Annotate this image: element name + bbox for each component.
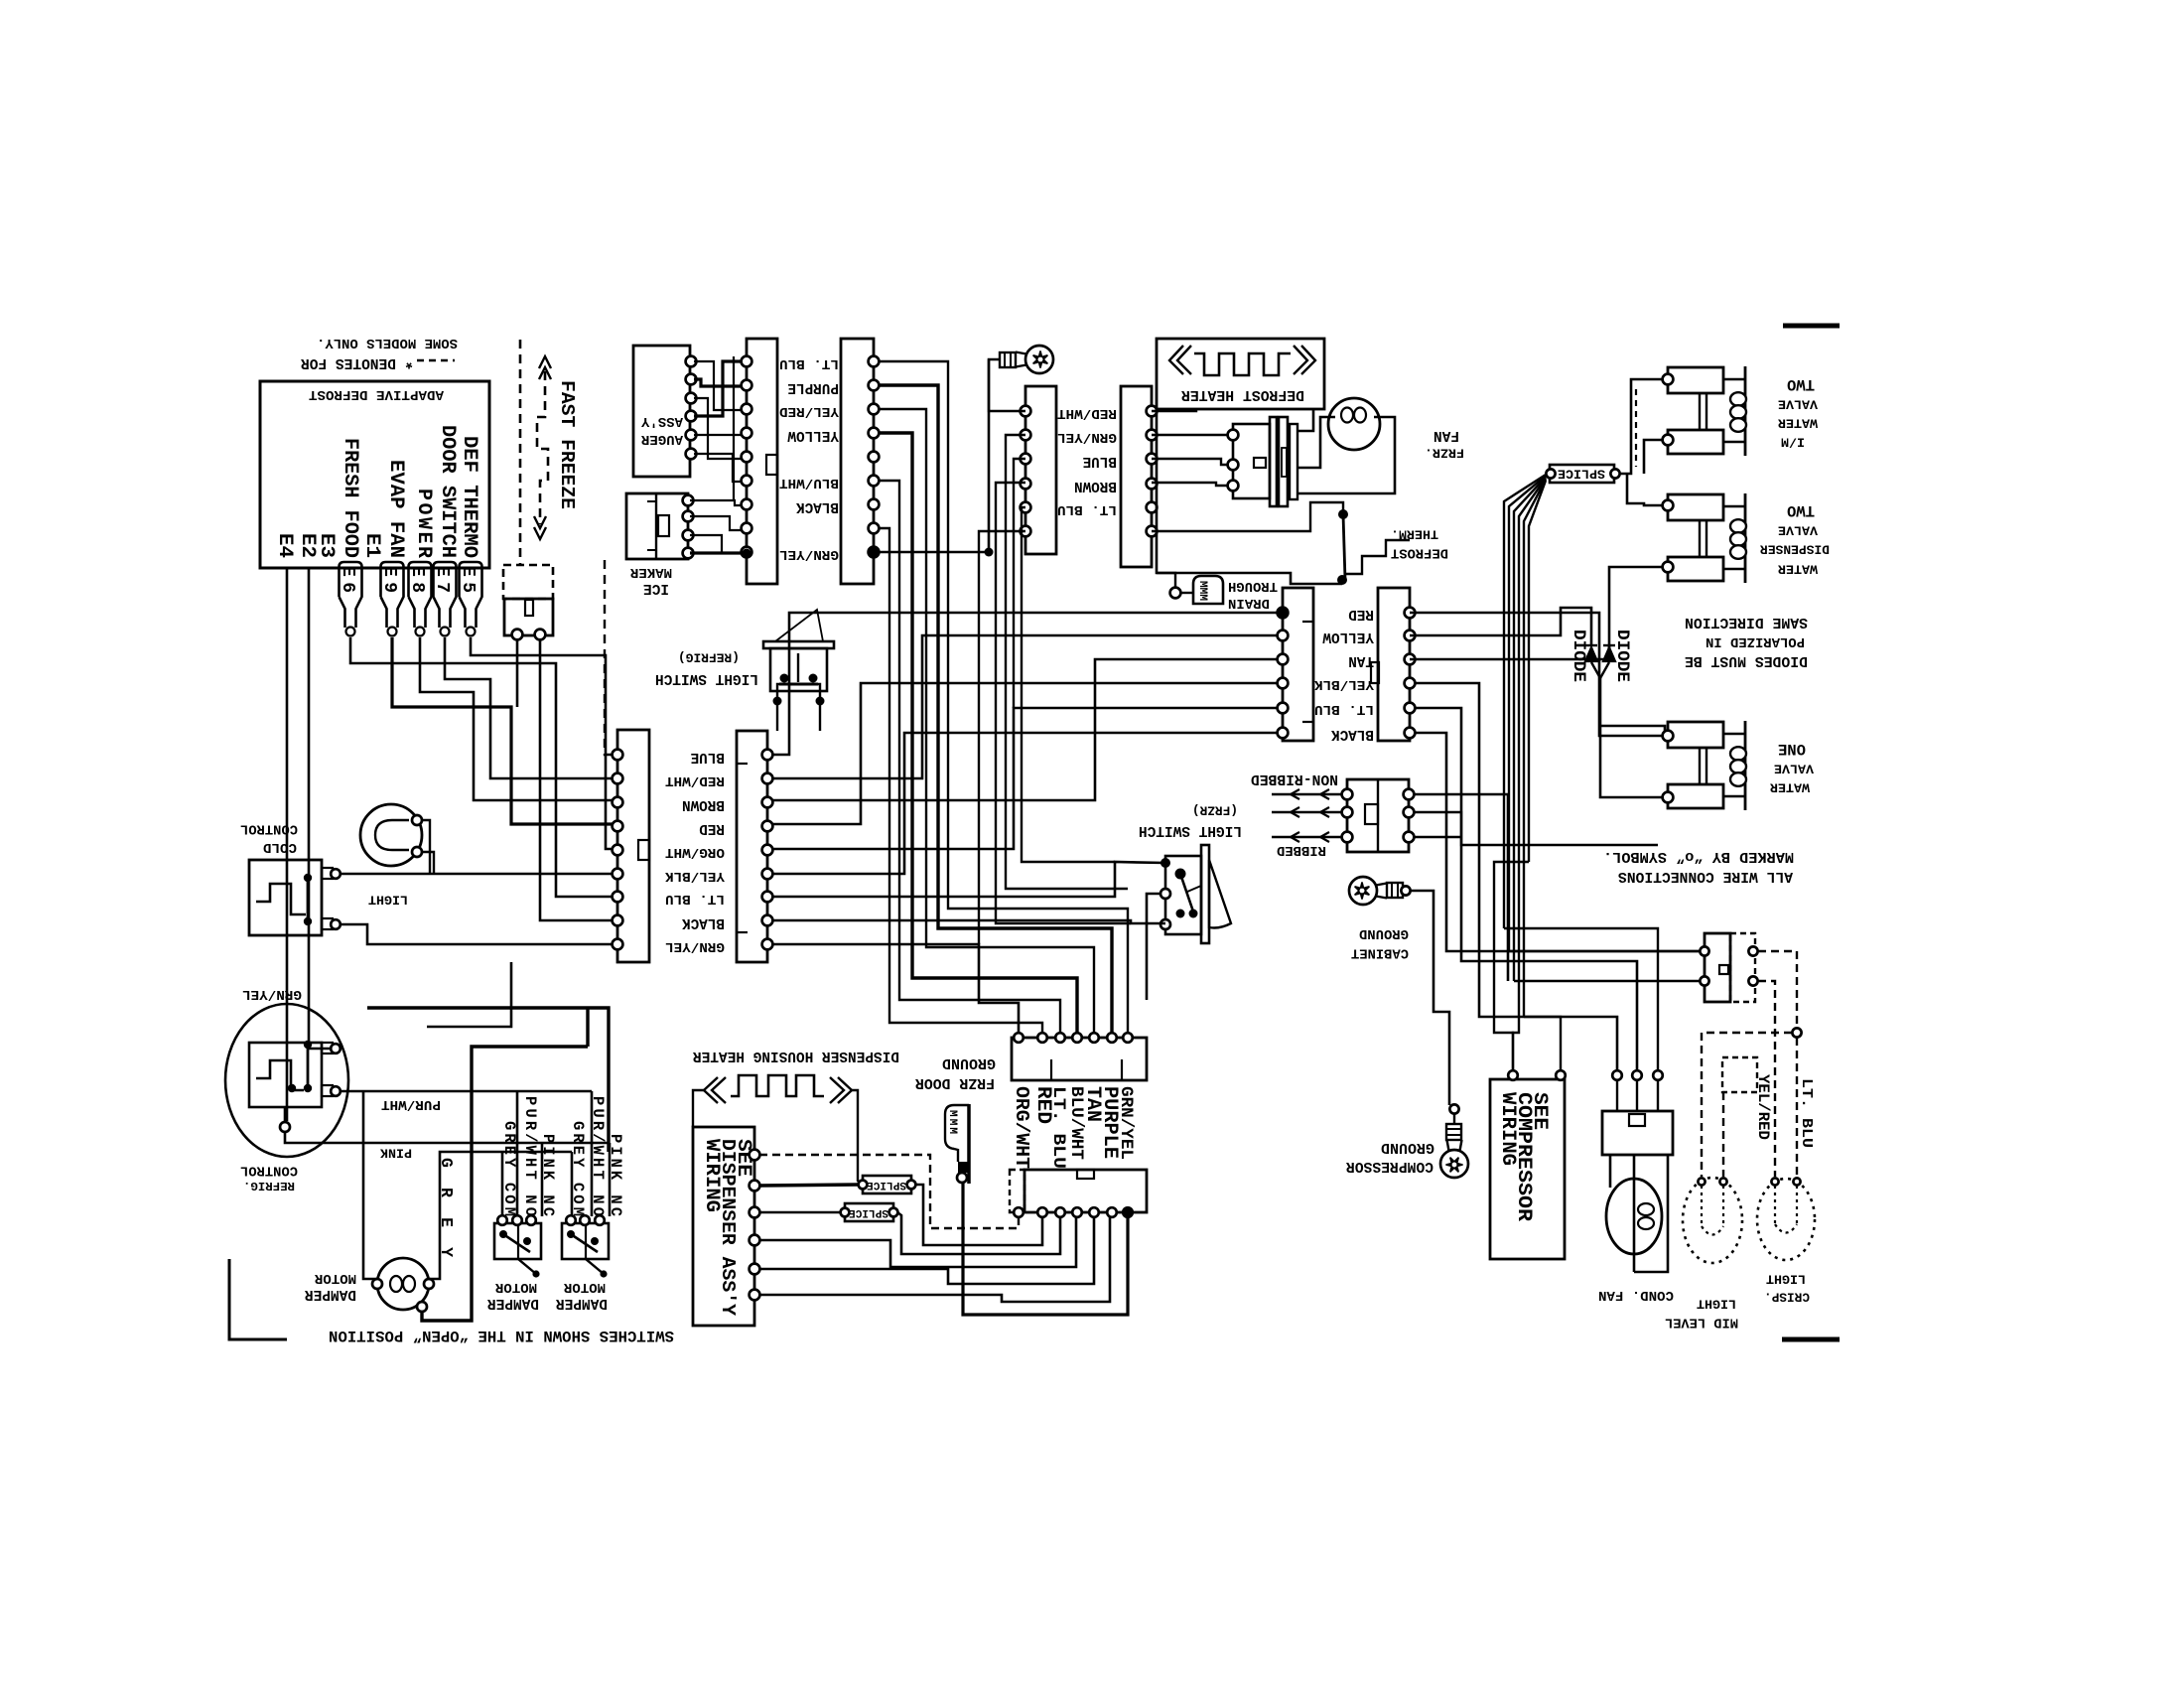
svg-text:DAMPER: DAMPER <box>556 1295 608 1311</box>
wire damper motor bottom bold <box>422 1047 588 1321</box>
water valve one coil assembly <box>1668 722 1723 748</box>
valve I/M pin top <box>1663 374 1674 385</box>
splice 2 node left <box>841 1208 850 1217</box>
svg-text:COND. FAN: COND. FAN <box>1598 1287 1674 1303</box>
wire to relay B <box>1414 708 1637 1070</box>
door cord connector <box>1347 779 1409 852</box>
bulkhead connector half A <box>1025 386 1056 554</box>
auger pin 4 <box>686 411 697 422</box>
wire door cord right 2 <box>1414 836 1461 839</box>
cold control pin 1 <box>331 869 341 879</box>
svg-text:FAST FREEZE: FAST FREEZE <box>556 380 578 509</box>
wire LT. BLU run to freezer switch <box>772 862 1165 897</box>
wire splice bundle <box>1524 480 1546 1017</box>
defrost thermostat contact A <box>1338 509 1348 519</box>
wire motor pin 1 <box>1152 434 1228 436</box>
cold control contacts <box>307 878 310 921</box>
svg-text:CRISP.: CRISP. <box>1764 1290 1810 1305</box>
ice maker box <box>626 493 688 559</box>
wire switch stubs <box>776 705 778 731</box>
dispenser box pin 4 <box>750 1235 760 1246</box>
refrig control ellipse <box>225 1004 348 1157</box>
svg-text:BLACK: BLACK <box>796 498 839 514</box>
connector B pin 6 <box>869 476 880 487</box>
crisp light pins <box>1771 1178 1778 1185</box>
wire harness run <box>879 361 1128 1033</box>
svg-text:RIBBED: RIBBED <box>1277 842 1326 858</box>
svg-text:MMM: MMM <box>1196 581 1208 601</box>
refrig harness connector half A <box>617 730 649 962</box>
mid level light bulb <box>1683 1178 1742 1263</box>
svg-text:GRN/YEL: GRN/YEL <box>242 986 302 1002</box>
diode D2 <box>1603 647 1615 661</box>
svg-text:EVAP FAN: EVAP FAN <box>384 460 407 558</box>
svg-text:LIGHT SWITCH: LIGHT SWITCH <box>1139 822 1242 838</box>
ice maker pin 4 <box>683 548 694 559</box>
wire diode V-junction <box>1591 662 1609 678</box>
refrig control pin 1 <box>331 1044 341 1053</box>
svg-text:SPLICE: SPLICE <box>1558 467 1605 482</box>
connector B pin 7 <box>869 499 880 510</box>
wire BLACK run to freezer switch <box>772 920 1165 923</box>
svg-text:ASS'Y: ASS'Y <box>640 413 683 429</box>
door cord pin left <box>1342 832 1353 843</box>
connector B pin 4 <box>869 428 880 439</box>
svg-text:TWO: TWO <box>1787 375 1815 393</box>
bulkhead A pin 6 <box>1021 526 1031 537</box>
wire GREY run <box>429 1152 572 1279</box>
dispenser lower pin 4 <box>1072 1207 1082 1217</box>
refrig conn A pin 5 <box>613 845 623 856</box>
wire harness run <box>879 481 1060 1033</box>
svg-text:FRESH FOOD: FRESH FOOD <box>339 438 361 558</box>
svg-text:DEF THERMO: DEF THERMO <box>458 436 480 558</box>
svg-text:YEL/RED: YEL/RED <box>779 403 839 419</box>
damper motor pin right <box>424 1279 434 1289</box>
dispenser bulkhead connector upper <box>1012 1038 1147 1080</box>
connector B pin 5 <box>869 452 880 463</box>
dashed wire to crisp light 1 <box>1758 951 1797 1033</box>
svg-text:LIGHT: LIGHT <box>1766 1272 1806 1287</box>
refrig conn A pin 9 <box>613 939 623 950</box>
refrig conn B pin 8 <box>762 915 773 926</box>
freezer fan motor bars <box>1270 417 1277 506</box>
fast freeze switch dashed housing <box>503 565 553 599</box>
svg-text:*: * <box>404 351 414 370</box>
terminal E9 <box>381 562 404 628</box>
wire motor pin 2 <box>1152 459 1228 465</box>
wire splice bundle <box>1504 475 1546 928</box>
drain trough pin <box>1170 588 1181 599</box>
wire bulkhead elbow 3 <box>996 483 1131 923</box>
terminal E5 <box>460 562 482 628</box>
svg-text:BROWN: BROWN <box>682 796 725 812</box>
svg-text:PINK: PINK <box>380 1146 412 1161</box>
connector A pin 8 <box>742 523 752 534</box>
svg-text:COMPRESSOR: COMPRESSOR <box>1346 1158 1433 1174</box>
connector B pin 2 <box>869 380 880 391</box>
wire RED run <box>772 683 1278 824</box>
damper switch 1 pin <box>497 1215 507 1225</box>
valve dispenser pin top <box>1663 500 1674 511</box>
wire fast freeze pin 2 <box>540 639 613 920</box>
svg-text:ADAPTIVE DEFROST: ADAPTIVE DEFROST <box>308 386 444 402</box>
svg-text:SOME MODELS ONLY.: SOME MODELS ONLY. <box>317 335 458 351</box>
wire PUR/WHT run <box>341 1090 592 1093</box>
bulkhead connector half B <box>1121 386 1152 567</box>
cabinet ground pin <box>1401 886 1410 895</box>
compressor box pin 1 <box>1508 1070 1518 1080</box>
svg-text:MOTOR: MOTOR <box>563 1279 606 1295</box>
drain trough heater element <box>1193 576 1223 604</box>
water valve I/M coil assembly <box>1668 367 1723 393</box>
svg-text:CONTROL: CONTROL <box>240 1163 298 1178</box>
damper motor pin bottom <box>417 1302 427 1312</box>
adaptive defrost control box <box>260 381 489 568</box>
refrig conn B pin 7 <box>762 892 773 903</box>
wire auger 1 <box>694 361 742 410</box>
compressor ground lug <box>1440 1124 1468 1178</box>
svg-text:GRN/YEL: GRN/YEL <box>779 546 839 562</box>
wire cold control 2 <box>341 924 613 944</box>
svg-text:FRZR.: FRZR. <box>1425 446 1464 461</box>
wire heater to motor <box>1152 409 1196 411</box>
freezer fan motor pin <box>1228 481 1239 491</box>
refrig conn A pin 7 <box>613 892 623 903</box>
dashed wire to mid light 1 <box>1702 1033 1792 1177</box>
svg-text:(FRZR): (FRZR) <box>1192 803 1238 818</box>
mid level light pins <box>1698 1178 1705 1185</box>
wire E8 run <box>420 637 613 800</box>
refrig conn A pin 1 <box>613 750 623 761</box>
svg-text:ALL WIRE CONNECTIONS: ALL WIRE CONNECTIONS <box>1618 868 1793 884</box>
bulkhead A pin 3 <box>1021 454 1031 465</box>
damper switch 2 pin <box>595 1215 605 1225</box>
svg-text:GROUND: GROUND <box>942 1054 996 1070</box>
damper switch 2 pin <box>580 1215 590 1225</box>
frzr-door A pin 2 <box>1278 631 1289 641</box>
wire E4 run <box>286 568 289 1121</box>
wire ORG/WHT run <box>772 708 1278 849</box>
bulkhead B pin 6 <box>1147 526 1158 537</box>
wire dispenser pin4 <box>759 1217 1076 1267</box>
terminal block pin L1 <box>1700 946 1708 955</box>
wire heater left lead <box>693 1090 704 1127</box>
light feed terminal block <box>1705 933 1730 1002</box>
dashed wire to mid light 2 <box>1722 1092 1724 1177</box>
refrig control contacts <box>307 1045 310 1088</box>
valve one pin bottom <box>1663 792 1674 803</box>
connector A pin 4 <box>742 428 752 439</box>
svg-text:FAN: FAN <box>1433 427 1459 443</box>
svg-text:MARKED BY “o” SYMBOL.: MARKED BY “o” SYMBOL. <box>1603 848 1794 866</box>
svg-text:LT. BLU: LT. BLU <box>1048 1086 1067 1169</box>
compressor wiring box <box>1490 1079 1565 1259</box>
connector B pin 9 <box>869 547 880 558</box>
splice node left <box>1546 469 1555 478</box>
wire valve1 bottom <box>1644 440 1663 474</box>
svg-text:POLARIZED IN: POLARIZED IN <box>1706 633 1805 649</box>
frzr-door B pin 2 <box>1405 631 1416 641</box>
dispenser housing heater element <box>731 1075 824 1096</box>
crisp light bulb <box>1757 1179 1815 1260</box>
svg-text:DOOR SWITCH: DOOR SWITCH <box>436 425 459 558</box>
svg-text:LT. BLU: LT. BLU <box>1798 1078 1814 1148</box>
dispenser lower pin 2 <box>1037 1207 1047 1217</box>
svg-text:VALVE: VALVE <box>1778 397 1818 412</box>
freezer drain heater pin <box>957 1173 967 1183</box>
svg-text:FRZR DOOR: FRZR DOOR <box>915 1074 995 1090</box>
wire auger 5 <box>694 434 742 436</box>
cold control box <box>249 860 322 935</box>
refrig conn B pin 5 <box>762 845 773 856</box>
splice 2 node right <box>889 1208 898 1217</box>
junction dot frzr-door pin <box>1279 609 1288 618</box>
dispenser lower pin 3 <box>1055 1207 1065 1217</box>
page registration tick bottom-right <box>1782 1337 1840 1342</box>
damper switch 1 pin <box>512 1215 522 1225</box>
wire conn A top dashed <box>605 556 613 755</box>
dispenser upper pin 2 <box>1037 1033 1047 1043</box>
defrost thermostat contact B <box>1337 575 1347 585</box>
wire bulkhead elbow 4 <box>989 359 1025 411</box>
bulkhead B pin 5 <box>1147 502 1158 513</box>
svg-text:E2: E2 <box>296 533 319 558</box>
wire harness run <box>879 385 1112 1033</box>
frzr-door A pin 6 <box>1278 728 1289 739</box>
cond fan windings <box>1638 1203 1654 1215</box>
terminal E8 <box>409 562 432 628</box>
damper motor windings <box>390 1276 402 1292</box>
dispenser upper pin 1 <box>1014 1033 1024 1043</box>
svg-text:DEFROST HEATER: DEFROST HEATER <box>1181 386 1304 402</box>
refrig light switch contacts <box>780 674 789 683</box>
wire bulkhead elbow 1 <box>1006 435 1128 889</box>
wire harness run <box>879 433 1077 1033</box>
freezer fan circle <box>1328 398 1380 450</box>
svg-text:ORG/WHT: ORG/WHT <box>665 844 725 860</box>
freezer drain heater element <box>945 1105 969 1162</box>
svg-text:WATER: WATER <box>1778 562 1818 577</box>
relay block <box>1602 1111 1673 1155</box>
bulkhead A pin 4 <box>1021 479 1031 490</box>
freezer harness connector half A <box>747 339 777 584</box>
wire heater return via thermostat <box>1157 409 1342 584</box>
wire dispenser pin6 <box>759 1217 1110 1302</box>
bulkhead A pin 5 <box>1021 502 1031 513</box>
svg-text:DIODE: DIODE <box>1569 630 1588 682</box>
svg-text:PURPLE: PURPLE <box>787 379 839 395</box>
freezer light switch lever <box>1180 874 1193 912</box>
refrig light switch body <box>770 648 827 691</box>
wire auger 3 <box>694 379 742 386</box>
svg-text:YELLOW: YELLOW <box>787 427 839 443</box>
refrig control pin tabs <box>322 1043 333 1053</box>
svg-text:SPLICE: SPLICE <box>849 1206 888 1218</box>
door cord pin right <box>1404 832 1415 843</box>
dispenser lower pin 5 <box>1089 1207 1099 1217</box>
wire harness run <box>879 528 1042 1033</box>
frzr-door B pin 3 <box>1405 654 1416 665</box>
wire E9 run <box>392 637 613 824</box>
refrig conn A pin 3 <box>613 797 623 808</box>
svg-text:DIODE: DIODE <box>1612 630 1632 682</box>
wire dispenser to splice 1 <box>759 1185 859 1186</box>
refrig conn A pin 8 <box>613 915 623 926</box>
wire dispenser pin5 <box>759 1217 1094 1284</box>
dispenser upper pin 6 <box>1107 1033 1117 1043</box>
refrig control ground terminal <box>284 1107 287 1121</box>
wire BROWN run <box>772 659 1278 800</box>
wire fast freeze pin 1 <box>516 639 519 707</box>
junction dashed <box>1792 1028 1801 1037</box>
svg-text:YEL/BLK: YEL/BLK <box>1314 676 1374 692</box>
svg-text:LT. BLU: LT. BLU <box>779 355 839 371</box>
cond fan motor <box>1606 1179 1662 1254</box>
wire E6 run <box>350 637 613 897</box>
valve one pin top <box>1663 731 1674 742</box>
svg-text:RED/WHT: RED/WHT <box>665 772 725 788</box>
svg-text:LT. BLU: LT. BLU <box>665 891 725 907</box>
bulkhead B pin 3 <box>1147 454 1158 465</box>
fast freeze switch pin 2 <box>535 630 546 640</box>
wire BLUE run <box>772 613 1278 755</box>
door cord pin right <box>1404 789 1415 800</box>
svg-text:MAKER: MAKER <box>629 564 672 580</box>
wire E2 run <box>309 568 331 1049</box>
damper motor circle <box>377 1258 429 1310</box>
auger pin 1 <box>686 356 697 367</box>
svg-text:RED: RED <box>699 820 725 836</box>
svg-text:TWO: TWO <box>1787 501 1815 519</box>
wire red to valve one <box>1410 613 1663 736</box>
svg-text:DENOTES FOR: DENOTES FOR <box>301 354 396 370</box>
svg-text:COLD: COLD <box>263 839 297 855</box>
dashed box mid light <box>1722 1057 1757 1092</box>
svg-text:BLU/WHT: BLU/WHT <box>779 475 839 491</box>
relay pin <box>1612 1070 1622 1080</box>
svg-text:LT. BLU: LT. BLU <box>1057 501 1117 517</box>
wire ice 2 <box>690 516 742 530</box>
connector A pin 3 <box>742 404 752 415</box>
freezer fan windings <box>1341 408 1353 423</box>
splice node right <box>1610 469 1619 478</box>
wire valve3 bottom <box>1600 726 1663 797</box>
refrig light switch pins <box>777 684 779 699</box>
wire thermostat feed <box>1152 502 1343 531</box>
wire freezer switch middle contact <box>1147 894 1160 1000</box>
svg-text:MMM: MMM <box>946 1110 958 1134</box>
wire PINK run <box>285 1132 610 1143</box>
wire E5 run <box>471 637 613 849</box>
wire bulkhead elbow 2 <box>1014 459 1025 708</box>
frzr-door A pin 3 <box>1278 654 1289 665</box>
svg-text:MID LEVEL: MID LEVEL <box>1665 1315 1738 1330</box>
wire splice bundle <box>1519 479 1546 997</box>
damper switch 1 <box>494 1223 541 1259</box>
svg-text:POWER: POWER <box>412 489 435 558</box>
cabinet ground lug <box>1349 877 1403 905</box>
wire cold control feed <box>341 873 613 876</box>
freezer fan motor pin <box>1228 460 1239 471</box>
page registration tick top-right <box>1783 324 1840 329</box>
ice maker pin 3 <box>683 530 694 541</box>
wire to relay A <box>1414 683 1617 1070</box>
refrig conn A pin 6 <box>613 869 623 880</box>
note: dashed-line key sample <box>417 359 455 362</box>
wire bulkhead elbow 6 <box>979 531 1025 944</box>
wire valve2 bottom <box>1609 567 1663 659</box>
svg-text:WIRING: WIRING <box>700 1139 723 1212</box>
terminal E6 <box>340 562 362 628</box>
svg-text:E1: E1 <box>360 533 383 558</box>
auger assembly box <box>633 346 690 477</box>
wire dispenser to splice 2 <box>759 1211 841 1214</box>
wire splice bundle <box>1529 481 1546 862</box>
dispenser bulkhead connector lower <box>1024 1170 1147 1212</box>
svg-text:THERM.: THERM. <box>1391 527 1438 542</box>
wire bold top <box>367 1008 609 1152</box>
defrost thermostat blade <box>1343 514 1345 580</box>
relay pin <box>1632 1070 1642 1080</box>
svg-text:SPLICE: SPLICE <box>867 1179 906 1191</box>
mid level light filament <box>1701 1186 1703 1226</box>
freezer fan motor body <box>1233 424 1270 498</box>
wire door cord right 1 <box>1414 794 1508 981</box>
fast freeze switch pin 1 <box>512 630 523 640</box>
freezer door connector half B <box>1378 588 1410 741</box>
svg-text:AUGER: AUGER <box>640 431 683 447</box>
svg-text:DRAIN: DRAIN <box>1228 595 1270 611</box>
splice box 1 <box>863 1176 911 1193</box>
page corner mark bottom-left <box>229 1259 287 1339</box>
wire thermostat Z-link <box>1344 540 1410 574</box>
svg-text:ICE: ICE <box>643 580 669 596</box>
frzr-door A pin 1 <box>1278 608 1289 619</box>
wire E7 run <box>445 637 613 778</box>
dispenser upper pin 5 <box>1089 1033 1099 1043</box>
svg-text:BLUE: BLUE <box>691 749 725 765</box>
freezer fan motor pin <box>1228 430 1239 441</box>
svg-text:VALVE: VALVE <box>1778 523 1818 538</box>
svg-text:BLACK: BLACK <box>1331 726 1374 742</box>
terminal block pin L2 <box>1700 976 1708 985</box>
svg-text:SAME DIRECTION: SAME DIRECTION <box>1685 614 1808 630</box>
frzr-door B pin 1 <box>1405 608 1416 619</box>
wire motor pin 3 <box>1152 483 1228 486</box>
freezer light bulb <box>1000 346 1053 373</box>
door cord wire arrows <box>1272 811 1342 813</box>
cold control pin 2 <box>331 919 341 929</box>
freezer light switch plunger <box>1209 860 1231 928</box>
dispenser upper pin 7 <box>1123 1033 1133 1043</box>
svg-text:CONTROL: CONTROL <box>240 821 298 836</box>
connector A pin 5 <box>742 452 752 463</box>
wire splice bundle <box>1509 476 1546 951</box>
wire heater right lead <box>852 1090 863 1185</box>
wire splice to valve2 top <box>1627 474 1663 505</box>
svg-text:YEL/RED: YEL/RED <box>1754 1074 1772 1140</box>
dashed wire to crisp light 3 <box>1758 981 1775 1177</box>
svg-text:GRN/YEL: GRN/YEL <box>665 938 725 954</box>
refrig conn B pin 9 <box>762 939 773 950</box>
svg-text:I/M: I/M <box>1781 435 1805 450</box>
svg-text:REFRIG.: REFRIG. <box>243 1179 295 1193</box>
wire splice bundle to block <box>1504 928 1658 1070</box>
svg-text:LT. BLU: LT. BLU <box>1314 701 1374 717</box>
wire light stubs <box>422 820 430 874</box>
svg-text:WIRING: WIRING <box>1496 1092 1519 1166</box>
